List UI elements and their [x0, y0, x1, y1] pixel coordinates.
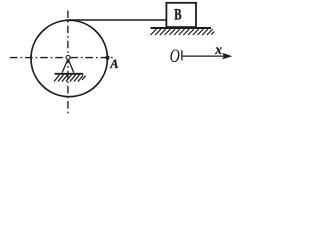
x axis arrowhead — [222, 53, 232, 60]
vertical centerline — [67, 11, 69, 114]
right ground hatching — [151, 29, 215, 35]
pivot triangle — [62, 59, 74, 72]
label B — [174, 6, 181, 24]
rope — [66, 19, 167, 21]
svg-text:O: O — [170, 45, 180, 67]
origin label O — [170, 45, 180, 67]
svg-text:B: B — [174, 6, 181, 24]
pivot ground line — [55, 73, 84, 75]
svg-text:A: A — [109, 57, 118, 71]
pulley wheel — [31, 20, 107, 96]
point A dot — [105, 56, 109, 60]
x axis line — [182, 55, 225, 57]
right ground line — [151, 27, 211, 29]
svg-text:x: x — [214, 42, 222, 57]
pivot pin — [66, 55, 70, 59]
block B — [166, 3, 196, 27]
horizontal centerline — [10, 57, 114, 59]
pivot hatching — [54, 75, 85, 82]
axis origin tick — [181, 50, 183, 60]
